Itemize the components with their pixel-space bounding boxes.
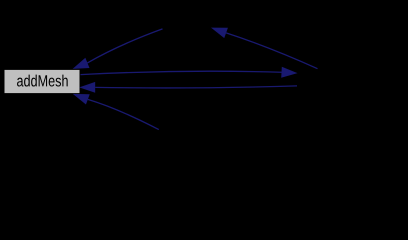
wire edge D: right node to addMesh: [79, 82, 297, 93]
wire edge B: right node to top node: [211, 28, 318, 69]
wire edge C: addMesh to right node: [81, 67, 298, 78]
node addMesh: [4, 69, 80, 93]
wire edge E: bottom node to addMesh: [73, 94, 159, 130]
wire edge A: top node to addMesh: [73, 29, 163, 69]
